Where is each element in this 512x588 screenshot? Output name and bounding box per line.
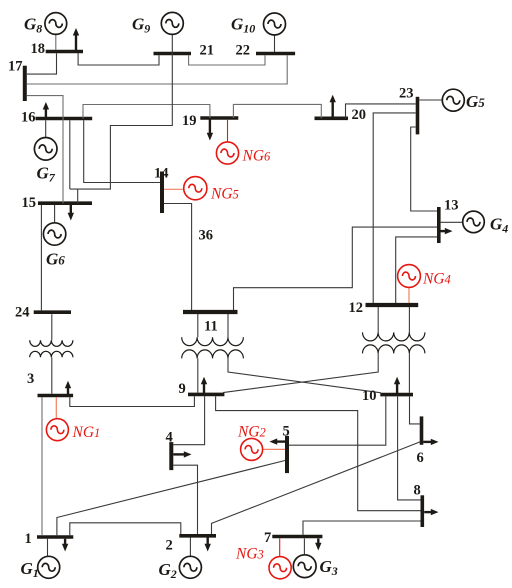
generator NG3: [269, 557, 291, 579]
svg-text:11: 11: [204, 319, 218, 335]
svg-text:3: 3: [27, 371, 34, 387]
svg-text:8: 8: [414, 483, 421, 499]
transformer 9-11: [182, 337, 244, 358]
svg-text:20: 20: [352, 107, 367, 123]
generator G8: [45, 13, 67, 35]
generator NG6 stem: [227, 120, 229, 142]
svg-text:23: 23: [399, 86, 414, 102]
generator G3 stem: [303, 539, 305, 555]
bus 11: [183, 310, 238, 314]
generator NG5: [184, 177, 207, 200]
wire 14-16: [84, 120, 160, 182]
wire 12-13: [396, 237, 437, 303]
wire 21-22: [189, 55, 265, 65]
generator G9: [161, 12, 183, 34]
bus 2: [179, 534, 216, 538]
bus 9: [188, 393, 224, 397]
wire 23-G5: [419, 99, 442, 101]
wire 4-9: [173, 396, 204, 445]
generator G8 stem: [55, 34, 57, 50]
bus 17: [23, 66, 27, 101]
wire 1-2: [70, 523, 181, 535]
svg-text:19: 19: [182, 113, 197, 129]
wire 16-19: [83, 105, 210, 119]
generator G7: [34, 138, 57, 161]
generator NG1 stem: [55, 397, 57, 418]
load arrow bus 1: [62, 539, 68, 552]
load arrow bus 10: [394, 377, 400, 393]
generator NG6: [216, 142, 238, 164]
generator NG2: [241, 438, 263, 460]
bus 8: [420, 495, 424, 527]
wire 20-23: [346, 104, 416, 118]
transformer 3-24: [30, 340, 73, 357]
wire 3-9: [70, 396, 195, 406]
load arrow bus 3: [65, 381, 71, 394]
load arrow bus 7: [315, 539, 321, 551]
svg-text:18: 18: [31, 41, 46, 57]
bus 15: [38, 201, 92, 205]
generator G1: [38, 556, 60, 578]
bus 7: [272, 535, 322, 539]
wire 17-22: [27, 55, 287, 84]
svg-text:17: 17: [8, 59, 23, 75]
svg-text:4: 4: [166, 430, 173, 446]
load arrow bus 6: [423, 439, 438, 445]
generator G6 stem: [54, 205, 56, 223]
svg-text:14: 14: [154, 166, 169, 182]
bus 21: [154, 52, 192, 56]
bus 20: [315, 117, 349, 121]
bus 24: [34, 310, 71, 314]
wire 5-10: [289, 396, 386, 445]
wire 10-11 diagonal: [228, 358, 381, 392]
svg-text:36: 36: [199, 228, 214, 244]
svg-text:13: 13: [444, 198, 459, 214]
wire 9-12 diagonal: [223, 353, 378, 392]
wire 13-23: [411, 127, 437, 211]
wire 7-8: [303, 521, 421, 535]
bus 6: [420, 416, 424, 444]
svg-text:NG4: NG4: [422, 271, 451, 288]
svg-text:21: 21: [200, 43, 215, 59]
wire 18-21: [78, 53, 159, 65]
generator G10: [264, 13, 286, 35]
svg-text:NG6: NG6: [242, 148, 272, 165]
svg-text:NG3: NG3: [235, 546, 264, 563]
svg-text:5: 5: [283, 424, 290, 440]
svg-text:15: 15: [22, 195, 37, 211]
load arrow bus 2: [205, 538, 211, 552]
generator G3: [293, 555, 316, 578]
svg-text:NG5: NG5: [210, 186, 239, 203]
bus 23: [416, 97, 420, 135]
generator G1 stem: [47, 539, 49, 557]
generator NG2 stem: [263, 448, 285, 450]
load arrow bus 20: [330, 95, 336, 117]
wire 13-G4: [441, 221, 463, 223]
load arrow bus 18: [73, 28, 79, 51]
generator NG4 stem: [408, 287, 410, 303]
transformer 10-12: [363, 332, 425, 353]
svg-text:16: 16: [21, 110, 36, 126]
bus 16: [36, 117, 93, 121]
svg-text:10: 10: [362, 388, 377, 404]
wire T11 top leads: [198, 314, 228, 337]
svg-text:2: 2: [166, 538, 173, 554]
wire 15-16 second: [69, 120, 71, 189]
svg-text:NG1: NG1: [72, 424, 101, 441]
svg-text:9: 9: [179, 381, 186, 397]
svg-text:24: 24: [15, 305, 30, 321]
wire 6-10: [410, 396, 420, 424]
wire 8-9: [216, 396, 421, 511]
wire 17-18: [27, 53, 57, 74]
bus 10: [380, 393, 413, 397]
generator G6: [43, 223, 65, 245]
load arrow bus 4: [173, 451, 191, 457]
wire T12 top leads: [378, 307, 409, 332]
svg-text:G5: G5: [466, 92, 485, 111]
load arrow bus 19: [207, 120, 213, 141]
bus 22: [256, 52, 295, 56]
generator NG1: [46, 419, 68, 441]
generator G2 stem: [189, 538, 191, 557]
bus 12: [366, 303, 419, 307]
svg-text:1: 1: [25, 531, 32, 547]
generator G4: [463, 211, 485, 233]
wire G9 stem and 15-21: [70, 34, 173, 189]
svg-text:7: 7: [264, 530, 271, 546]
bus 14: [160, 172, 164, 214]
wire 8-10: [398, 396, 421, 500]
bus 4: [169, 442, 173, 470]
wire T11 to bus 9: [197, 358, 199, 392]
wire 36 line 11-14: [164, 204, 192, 311]
bus 19: [200, 116, 238, 120]
wire 2-4: [173, 465, 197, 534]
wire 24 to transformer: [51, 314, 53, 340]
generator G5: [442, 89, 464, 111]
wire 1-3: [41, 397, 43, 535]
load arrow bus 15: [68, 205, 74, 221]
bus 5: [285, 436, 289, 473]
svg-text:6: 6: [417, 450, 424, 466]
bus 13: [437, 207, 441, 243]
load arrow bus 5: [270, 438, 286, 444]
svg-text:G6: G6: [46, 250, 65, 269]
generator NG3 stem: [279, 539, 281, 557]
generator G7 stem: [45, 120, 47, 137]
bus 3: [38, 394, 74, 398]
wire transformer to bus 3: [51, 357, 53, 393]
load arrow bus 8: [424, 509, 438, 515]
generator G2: [179, 556, 201, 578]
wire 1-5: [57, 461, 285, 536]
bus 1: [37, 535, 73, 539]
load arrow bus 13: [441, 228, 453, 234]
generator NG5 stem: [164, 188, 184, 190]
wire 19-20: [233, 104, 321, 118]
generator G10 stem: [274, 35, 276, 52]
load arrow bus 9: [201, 377, 207, 393]
svg-text:NG2: NG2: [237, 424, 266, 441]
wire T12 to bus 10: [408, 353, 410, 392]
wire 17-16-15: [27, 96, 63, 204]
wire 15 jog stub: [77, 189, 79, 203]
load arrow bus 16: [43, 102, 49, 117]
wire 2-6: [212, 442, 421, 534]
svg-text:22: 22: [236, 43, 251, 59]
wire 12-23: [373, 113, 416, 303]
wire 11-13: [234, 227, 438, 310]
bus 18: [46, 50, 83, 54]
svg-text:12: 12: [349, 300, 364, 316]
wire 15-24: [40, 205, 42, 310]
generator NG4: [398, 265, 421, 288]
